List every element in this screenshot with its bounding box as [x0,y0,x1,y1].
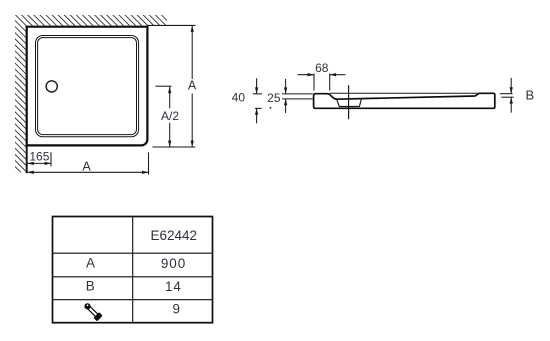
svg-text:14: 14 [165,279,182,294]
tray left wall face extension [26,144,28,173]
svg-text:E62442: E62442 [151,228,198,243]
svg-text:B: B [526,87,535,102]
dimension 25 [285,79,287,113]
svg-text:A: A [188,79,197,93]
svg-text:9: 9 [173,302,181,317]
drain circle [46,81,57,92]
spec table column divider [132,217,134,323]
svg-text:40: 40 [232,90,246,104]
section profile outline [314,93,495,108]
wall top edge / extension line [148,24,196,26]
svg-text:A: A [86,255,95,270]
dimension 40 [253,78,262,123]
dimension A (right side) [153,26,196,148]
svg-text:B: B [86,278,95,293]
svg-text:25: 25 [267,91,281,105]
dimension B [500,78,514,113]
dimension 68 [298,74,346,91]
drain centerline [348,85,350,119]
svg-text:900: 900 [161,256,186,271]
section far rim edge [330,92,479,94]
drain size icon [82,301,102,321]
svg-text:A/2: A/2 [161,109,179,123]
svg-text:A: A [82,160,91,174]
tray inner rim edge (inner line) [38,38,137,135]
wall hatching (plan view) [15,15,167,172]
dimension A/2 [156,86,172,147]
spec table row lines [53,253,213,300]
shower tray outer outline [27,27,148,146]
drain recess [337,100,361,107]
tray inner rim edge (outer line) [36,36,139,137]
svg-text:165: 165 [29,149,49,163]
dimension 165 [27,152,51,166]
svg-text:68: 68 [315,61,329,75]
dimension 25 extension lines [282,94,313,99]
dimension A (bottom) [27,153,148,175]
spec table frame [53,217,213,323]
